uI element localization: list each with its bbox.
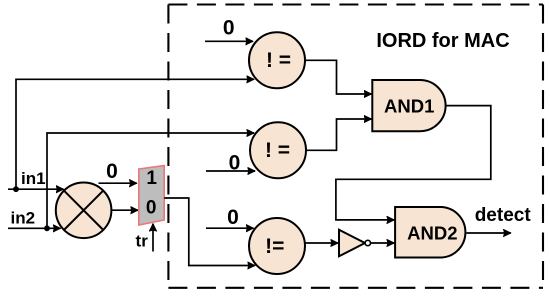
wire in2 horizontal xyxy=(8,227,61,229)
and-gate AND1 xyxy=(372,80,445,131)
wire tr select into mux xyxy=(152,224,154,252)
comparator U3 xyxy=(249,218,305,274)
wire AND2 output detect xyxy=(467,232,511,234)
wire comparator U3 output to inverter xyxy=(305,242,338,244)
wire in2 to comparator U2 upper input xyxy=(47,133,254,228)
svg-text:detect: detect xyxy=(475,205,532,226)
wire comparator U2 output to AND1 lower input xyxy=(306,119,371,150)
svg-text:!=: != xyxy=(265,235,284,258)
comparator U2 xyxy=(250,122,306,178)
svg-text:in2: in2 xyxy=(11,209,36,228)
inverter G1 xyxy=(339,230,370,257)
wire in1 horizontal xyxy=(8,188,64,190)
svg-text:! =: ! = xyxy=(266,49,291,72)
dashed box IORD xyxy=(168,5,543,288)
and-gate AND2 xyxy=(395,207,465,258)
wire constant 0 to comparator U1 upper input xyxy=(205,40,253,42)
node junction on in2 xyxy=(44,225,50,231)
svg-text:in1: in1 xyxy=(21,169,46,188)
svg-text:0: 0 xyxy=(223,17,235,40)
svg-text:1: 1 xyxy=(146,168,157,189)
multiplier X1 xyxy=(56,183,112,239)
svg-text:tr: tr xyxy=(136,232,149,251)
wire multiplier to mux input 0 xyxy=(111,209,138,211)
svg-text:AND1: AND1 xyxy=(384,95,434,116)
wire in1 to comparator U1 lower input xyxy=(16,79,254,189)
wire comparator U1 output to AND1 upper input xyxy=(305,60,371,94)
wire constant 0 to mux input 1 xyxy=(99,182,137,184)
svg-text:0: 0 xyxy=(227,206,239,229)
mux M1 xyxy=(139,166,164,225)
svg-text:IORD for MAC: IORD for MAC xyxy=(376,30,509,52)
wire constant 0 to comparator U2 lower input xyxy=(206,170,255,172)
wire AND1 output loop to AND2 upper input xyxy=(336,106,491,220)
svg-text:AND2: AND2 xyxy=(407,222,457,243)
svg-text:! =: ! = xyxy=(265,139,290,162)
wire constant 0 to comparator U3 upper input xyxy=(206,227,254,229)
comparator U1 xyxy=(249,32,305,88)
svg-text:0: 0 xyxy=(146,198,157,219)
wire mux output to comparator U3 lower input xyxy=(164,198,255,266)
wire inverter to AND2 lower input xyxy=(371,242,395,244)
node junction on in1 xyxy=(13,186,19,192)
svg-text:0: 0 xyxy=(106,160,118,183)
